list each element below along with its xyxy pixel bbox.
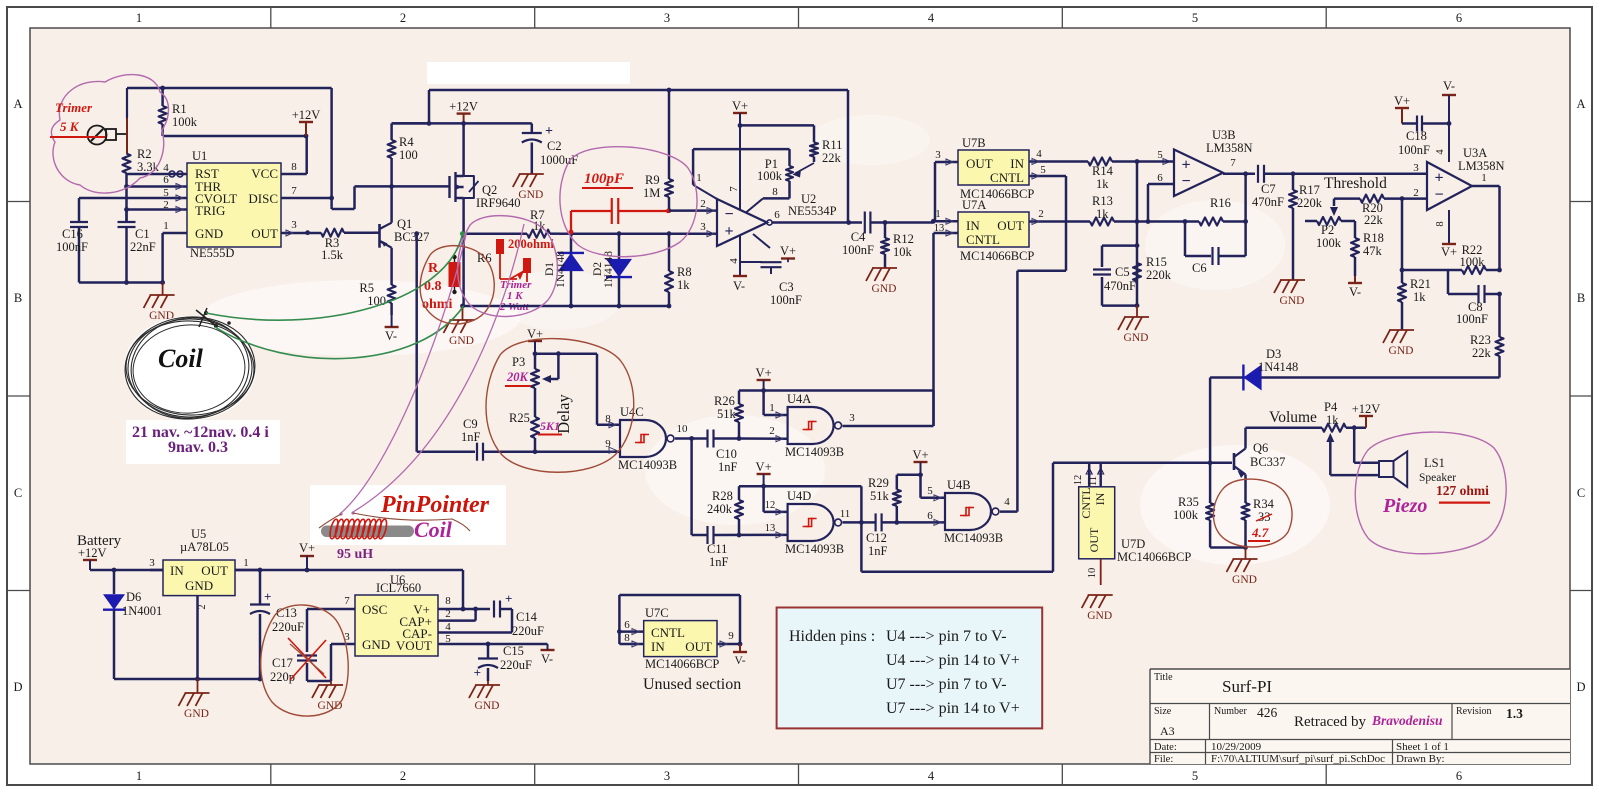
svg-text:Retraced by: Retraced by	[1294, 714, 1367, 730]
svg-text:MC14093B: MC14093B	[785, 445, 844, 459]
svg-text:V-: V-	[541, 652, 553, 666]
svg-text:PinPointer: PinPointer	[380, 492, 490, 518]
svg-text:4: 4	[928, 11, 935, 25]
svg-text:U4D: U4D	[787, 489, 811, 503]
svg-text:22nF: 22nF	[130, 240, 156, 254]
svg-text:Coil: Coil	[414, 517, 453, 542]
svg-text:100nF: 100nF	[1456, 312, 1488, 326]
svg-text:1: 1	[769, 402, 775, 414]
svg-text:CNTL: CNTL	[990, 170, 1024, 185]
svg-text:6: 6	[1456, 11, 1462, 25]
svg-text:Surf-PI: Surf-PI	[1222, 677, 1272, 696]
svg-text:13: 13	[765, 523, 776, 534]
svg-text:IN: IN	[651, 639, 665, 654]
svg-text:C1: C1	[135, 227, 150, 241]
svg-text:V+: V+	[1394, 94, 1410, 108]
svg-text:V+: V+	[732, 99, 748, 113]
svg-text:100nF: 100nF	[56, 240, 88, 254]
svg-text:NE555D: NE555D	[190, 246, 234, 260]
svg-text:GND: GND	[184, 708, 209, 720]
svg-text:+: +	[724, 223, 733, 240]
svg-text:U4A: U4A	[787, 392, 811, 406]
svg-text:Q1: Q1	[397, 217, 412, 231]
svg-text:3: 3	[849, 412, 855, 424]
svg-text:11: 11	[1088, 476, 1099, 486]
svg-text:1.5k: 1.5k	[321, 248, 344, 262]
svg-text:100k: 100k	[1173, 508, 1199, 522]
svg-text:47k: 47k	[1363, 244, 1383, 258]
svg-text:C4: C4	[851, 230, 866, 244]
svg-text:95 uH: 95 uH	[337, 547, 373, 562]
svg-text:+: +	[1434, 169, 1443, 186]
svg-text:CNTL: CNTL	[651, 625, 685, 640]
svg-text:GND: GND	[518, 189, 543, 201]
svg-text:C6: C6	[1192, 261, 1207, 275]
svg-text:200ohmi: 200ohmi	[508, 237, 554, 251]
svg-text:C17: C17	[272, 656, 293, 670]
svg-text:Q6: Q6	[1253, 441, 1268, 455]
svg-text:1M: 1M	[643, 186, 660, 200]
svg-text:R26: R26	[714, 394, 735, 408]
svg-text:IRF9640: IRF9640	[476, 196, 520, 210]
svg-text:R11: R11	[822, 138, 842, 152]
svg-text:+: +	[264, 589, 271, 604]
svg-text:A: A	[1576, 97, 1585, 111]
svg-text:470nF: 470nF	[1252, 195, 1284, 209]
svg-text:2: 2	[1038, 208, 1044, 220]
svg-text:11: 11	[840, 508, 851, 520]
svg-text:GND: GND	[872, 283, 897, 295]
svg-text:V+: V+	[756, 366, 772, 380]
svg-text:6: 6	[1157, 172, 1163, 184]
svg-text:C12: C12	[866, 531, 887, 545]
svg-text:R23: R23	[1470, 333, 1491, 347]
svg-text:V+: V+	[780, 244, 796, 258]
svg-text:U7B: U7B	[962, 136, 986, 150]
svg-text:R16: R16	[1210, 196, 1231, 210]
svg-text:P2: P2	[1321, 223, 1334, 237]
svg-text:R2: R2	[137, 147, 152, 161]
svg-text:+: +	[505, 591, 512, 606]
svg-text:Hidden pins :: Hidden pins :	[789, 628, 875, 645]
svg-text:2: 2	[769, 425, 775, 437]
svg-text:GND: GND	[1280, 295, 1305, 307]
svg-text:8: 8	[445, 595, 451, 607]
svg-text:220uF: 220uF	[272, 620, 304, 634]
svg-text:127 ohmi: 127 ohmi	[1436, 483, 1489, 498]
svg-text:1nF: 1nF	[461, 430, 481, 444]
svg-text:10/29/2009: 10/29/2009	[1211, 741, 1262, 753]
svg-text:Sheet 1 of 1: Sheet 1 of 1	[1396, 741, 1449, 753]
svg-text:426: 426	[1257, 705, 1278, 720]
svg-text:U4 ---> pin 7 to V-: U4 ---> pin 7 to V-	[886, 628, 1007, 645]
svg-text:100nF: 100nF	[770, 293, 802, 307]
svg-text:2: 2	[400, 769, 406, 783]
svg-text:6: 6	[624, 619, 630, 631]
svg-text:22k: 22k	[1472, 346, 1492, 360]
svg-text:8: 8	[772, 186, 778, 198]
svg-text:Q2: Q2	[482, 183, 497, 197]
svg-text:220p: 220p	[270, 670, 295, 684]
svg-text:U5: U5	[191, 527, 206, 541]
svg-text:CNTL: CNTL	[966, 232, 1000, 247]
svg-text:Drawn By:: Drawn By:	[1396, 753, 1445, 765]
svg-text:Coil: Coil	[158, 344, 204, 373]
svg-text:3: 3	[935, 149, 941, 161]
svg-text:F:\70\ALTIUM\surf_pi\surf_pi.S: F:\70\ALTIUM\surf_pi\surf_pi.SchDoc	[1211, 753, 1385, 765]
svg-text:220uF: 220uF	[500, 658, 532, 672]
svg-text:TRIG: TRIG	[195, 203, 225, 218]
svg-text:470nF: 470nF	[1104, 279, 1136, 293]
svg-text:GND: GND	[195, 226, 223, 241]
svg-text:A: A	[13, 97, 22, 111]
svg-text:2: 2	[1413, 187, 1419, 199]
svg-text:1nF: 1nF	[868, 544, 888, 558]
svg-text:8: 8	[1435, 221, 1446, 226]
svg-text:R15: R15	[1146, 255, 1167, 269]
svg-text:R12: R12	[893, 232, 914, 246]
svg-text:1000uF: 1000uF	[540, 153, 578, 167]
svg-text:GND: GND	[1389, 345, 1414, 357]
svg-text:P4: P4	[1324, 400, 1338, 414]
svg-text:V+: V+	[912, 448, 928, 462]
svg-text:C15: C15	[503, 644, 524, 658]
svg-text:File:: File:	[1154, 754, 1173, 765]
svg-text:U7 ---> pin 14 to V+: U7 ---> pin 14 to V+	[886, 700, 1020, 717]
svg-text:5: 5	[1192, 769, 1198, 783]
svg-text:1: 1	[1481, 172, 1487, 184]
svg-text:+: +	[1181, 156, 1190, 173]
svg-text:C: C	[1577, 486, 1585, 500]
svg-text:Bravodenisu: Bravodenisu	[1371, 713, 1443, 728]
svg-text:R25: R25	[509, 411, 530, 425]
svg-text:C18: C18	[1406, 129, 1427, 143]
svg-text:4.7: 4.7	[1251, 525, 1269, 540]
svg-text:R34: R34	[1253, 497, 1275, 511]
svg-text:R5: R5	[359, 281, 374, 295]
svg-text:3: 3	[149, 557, 155, 569]
svg-text:MC14066BCP: MC14066BCP	[645, 657, 719, 671]
svg-text:13: 13	[934, 223, 945, 234]
svg-text:U1: U1	[192, 149, 207, 163]
svg-text:MC14066BCP: MC14066BCP	[1117, 550, 1191, 564]
svg-text:100k: 100k	[757, 169, 783, 183]
svg-text:U4B: U4B	[947, 478, 971, 492]
svg-text:4: 4	[728, 258, 740, 264]
svg-text:CNTL: CNTL	[1079, 487, 1093, 518]
svg-text:U3B: U3B	[1212, 128, 1236, 142]
svg-text:R18: R18	[1363, 231, 1384, 245]
svg-text:IN: IN	[1093, 492, 1107, 505]
svg-text:9: 9	[605, 438, 611, 450]
svg-text:GND: GND	[449, 335, 474, 347]
svg-text:100k: 100k	[1460, 255, 1486, 269]
svg-text:51k: 51k	[870, 489, 890, 503]
svg-text:D: D	[13, 680, 22, 694]
svg-text:R14: R14	[1092, 164, 1114, 178]
svg-text:4: 4	[928, 769, 935, 783]
svg-text:U4C: U4C	[620, 405, 644, 419]
svg-text:R35: R35	[1178, 495, 1199, 509]
svg-text:5: 5	[1192, 11, 1198, 25]
svg-text:U7 ---> pin 7 to V-: U7 ---> pin 7 to V-	[886, 676, 1007, 693]
svg-text:4: 4	[1036, 148, 1042, 160]
svg-text:8: 8	[291, 161, 297, 173]
svg-text:GND: GND	[1124, 332, 1149, 344]
svg-text:1N4148: 1N4148	[1258, 360, 1298, 374]
svg-text:1: 1	[136, 769, 142, 783]
svg-text:8: 8	[605, 413, 611, 425]
svg-text:12: 12	[1073, 475, 1084, 486]
svg-text:Title: Title	[1154, 672, 1173, 683]
svg-text:OUT: OUT	[685, 639, 712, 654]
svg-text:+12V: +12V	[78, 546, 107, 560]
svg-text:240k: 240k	[707, 502, 733, 516]
svg-text:µA78L05: µA78L05	[180, 540, 229, 554]
svg-text:6: 6	[163, 174, 169, 186]
svg-text:7: 7	[344, 595, 350, 607]
svg-text:P3: P3	[512, 355, 525, 369]
svg-text:IN: IN	[170, 563, 184, 578]
svg-text:6: 6	[927, 510, 933, 522]
svg-text:9: 9	[728, 630, 734, 642]
svg-text:1: 1	[243, 557, 249, 569]
svg-text:ICL7660: ICL7660	[376, 581, 421, 595]
svg-text:1: 1	[696, 172, 702, 184]
svg-text:V-: V-	[733, 279, 745, 293]
svg-text:BC327: BC327	[394, 230, 429, 244]
svg-text:5 K: 5 K	[60, 119, 80, 134]
svg-text:GND: GND	[1087, 610, 1112, 622]
svg-text:C9: C9	[463, 417, 478, 431]
svg-text:V+: V+	[756, 460, 772, 474]
svg-text:Trimer: Trimer	[55, 100, 93, 115]
svg-text:Volume: Volume	[1269, 409, 1317, 426]
svg-text:1k: 1k	[1096, 207, 1109, 221]
svg-text:4: 4	[1435, 149, 1446, 155]
svg-text:Delay: Delay	[554, 394, 573, 434]
svg-text:10k: 10k	[893, 245, 913, 259]
svg-text:U3A: U3A	[1463, 146, 1487, 160]
svg-text:C14: C14	[516, 610, 538, 624]
svg-text:+12V: +12V	[1352, 402, 1381, 416]
svg-text:OUT: OUT	[1087, 527, 1101, 552]
svg-text:4: 4	[1004, 496, 1010, 508]
svg-text:IN: IN	[1010, 156, 1024, 171]
svg-text:V-: V-	[734, 655, 745, 667]
svg-text:5: 5	[163, 187, 169, 199]
svg-text:U7D: U7D	[1121, 537, 1145, 551]
svg-text:5: 5	[927, 485, 933, 497]
svg-text:MC14093B: MC14093B	[618, 458, 677, 472]
svg-text:7: 7	[728, 186, 740, 192]
svg-text:U7A: U7A	[962, 198, 986, 212]
svg-text:1N4001: 1N4001	[122, 604, 162, 618]
svg-text:LM358N: LM358N	[1458, 159, 1505, 173]
svg-text:R8: R8	[677, 265, 692, 279]
svg-text:IN: IN	[966, 218, 980, 233]
svg-text:20K: 20K	[506, 370, 530, 384]
svg-text:V-: V-	[1443, 79, 1455, 93]
svg-text:1.3: 1.3	[1506, 706, 1523, 721]
svg-text:C2: C2	[547, 139, 562, 153]
svg-text:MC14066BCP: MC14066BCP	[960, 249, 1034, 263]
svg-text:D3: D3	[1266, 347, 1281, 361]
svg-text:2: 2	[400, 11, 406, 25]
svg-text:VOUT: VOUT	[396, 638, 432, 653]
svg-text:V-: V-	[385, 329, 397, 343]
svg-text:VCC: VCC	[251, 166, 278, 181]
svg-text:Unused section: Unused section	[643, 676, 741, 693]
svg-text:C11: C11	[707, 542, 727, 556]
svg-text:R1: R1	[172, 102, 187, 116]
svg-text:A3: A3	[1160, 724, 1175, 738]
svg-text:Number: Number	[1214, 706, 1247, 717]
svg-text:R17: R17	[1299, 183, 1320, 197]
svg-text:R4: R4	[399, 135, 414, 149]
svg-text:51k: 51k	[717, 407, 737, 421]
svg-text:+: +	[474, 665, 481, 680]
svg-text:3: 3	[664, 769, 670, 783]
svg-text:+12V: +12V	[449, 100, 478, 114]
svg-text:NE5534P: NE5534P	[788, 204, 837, 218]
svg-text:22k: 22k	[822, 151, 842, 165]
svg-text:Size: Size	[1154, 706, 1172, 717]
svg-text:100k: 100k	[1316, 236, 1342, 250]
svg-text:Revision: Revision	[1456, 706, 1492, 717]
svg-text:100nF: 100nF	[1398, 143, 1430, 157]
svg-text:10: 10	[677, 423, 689, 435]
svg-text:C3: C3	[779, 280, 794, 294]
svg-text:100pF: 100pF	[584, 171, 624, 187]
svg-text:D6: D6	[126, 590, 141, 604]
svg-text:OUT: OUT	[201, 563, 228, 578]
svg-text:4: 4	[445, 621, 451, 633]
svg-text:100k: 100k	[172, 115, 198, 129]
svg-text:DISC: DISC	[248, 191, 278, 206]
svg-text:R28: R28	[712, 489, 733, 503]
svg-text:100: 100	[399, 148, 418, 162]
svg-text:MC14093B: MC14093B	[944, 531, 1003, 545]
svg-text:GND: GND	[475, 700, 500, 712]
svg-text:−: −	[1434, 187, 1443, 204]
svg-text:R9: R9	[645, 173, 660, 187]
svg-text:3: 3	[664, 11, 670, 25]
svg-text:12: 12	[765, 500, 776, 511]
svg-text:LM358N: LM358N	[1206, 141, 1253, 155]
svg-text:−: −	[724, 206, 733, 223]
svg-text:U7C: U7C	[645, 606, 669, 620]
svg-text:R21: R21	[1410, 277, 1431, 291]
svg-text:22k: 22k	[1364, 213, 1384, 227]
svg-text:OUT: OUT	[251, 226, 278, 241]
svg-text:2: 2	[700, 198, 706, 210]
svg-text:220k: 220k	[1146, 268, 1172, 282]
svg-text:GND: GND	[185, 578, 213, 593]
svg-text:1k: 1k	[1413, 290, 1426, 304]
svg-text:220k: 220k	[1297, 196, 1323, 210]
svg-text:C5: C5	[1115, 265, 1130, 279]
svg-text:OUT: OUT	[966, 156, 993, 171]
svg-text:100nF: 100nF	[842, 243, 874, 257]
svg-text:6: 6	[1456, 769, 1462, 783]
svg-text:U4 ---> pin 14 to V+: U4 ---> pin 14 to V+	[886, 652, 1020, 669]
svg-text:7: 7	[1230, 157, 1236, 169]
svg-text:C10: C10	[716, 447, 737, 461]
svg-text:10: 10	[1087, 568, 1098, 579]
svg-text:1: 1	[935, 208, 941, 220]
svg-text:3: 3	[291, 219, 297, 231]
svg-text:GND: GND	[1232, 574, 1257, 586]
svg-text:1k: 1k	[677, 278, 690, 292]
svg-text:Threshold: Threshold	[1324, 175, 1387, 192]
svg-text:Piezo: Piezo	[1382, 495, 1427, 517]
svg-text:3: 3	[1413, 162, 1419, 174]
svg-text:220uF: 220uF	[512, 624, 544, 638]
svg-text:V-: V-	[1349, 285, 1361, 299]
svg-text:R29: R29	[868, 476, 889, 490]
svg-text:V+: V+	[1441, 245, 1457, 259]
svg-text:1: 1	[163, 220, 169, 232]
svg-text:7: 7	[291, 185, 297, 197]
svg-text:OUT: OUT	[997, 218, 1024, 233]
svg-text:−: −	[1181, 173, 1190, 190]
svg-text:5: 5	[1040, 164, 1046, 176]
svg-text:B: B	[1577, 291, 1585, 305]
svg-text:MC14093B: MC14093B	[785, 542, 844, 556]
svg-text:1k: 1k	[1096, 177, 1109, 191]
svg-text:9nav. 0.3: 9nav. 0.3	[168, 439, 228, 456]
svg-text:2: 2	[163, 199, 169, 211]
svg-text:C: C	[14, 486, 22, 500]
svg-text:R13: R13	[1092, 194, 1113, 208]
svg-text:LS1: LS1	[1424, 456, 1445, 470]
svg-text:D: D	[1576, 680, 1585, 694]
svg-text:C7: C7	[1261, 182, 1276, 196]
svg-text:1nF: 1nF	[709, 555, 729, 569]
svg-text:C16: C16	[62, 227, 83, 241]
svg-text:+: +	[545, 124, 553, 139]
svg-text:3: 3	[700, 221, 706, 233]
svg-text:6: 6	[774, 209, 780, 221]
svg-text:GND: GND	[362, 637, 390, 652]
svg-text:4: 4	[163, 162, 169, 174]
svg-text:+12V: +12V	[292, 108, 321, 122]
svg-text:5: 5	[1157, 149, 1163, 161]
svg-text:B: B	[14, 291, 22, 305]
svg-text:8: 8	[624, 632, 630, 644]
svg-text:OSC: OSC	[362, 602, 387, 617]
svg-text:Date:: Date:	[1154, 742, 1177, 753]
svg-text:1nF: 1nF	[718, 460, 738, 474]
svg-text:1: 1	[136, 11, 142, 25]
svg-text:BC337: BC337	[1250, 455, 1285, 469]
